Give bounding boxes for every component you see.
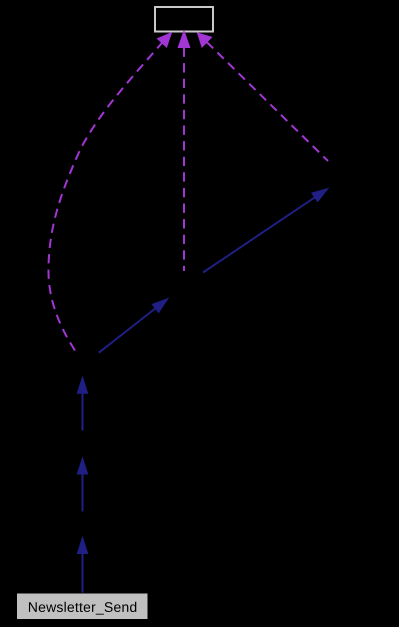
usage edge right (dashed purple diagonal, right hidden node to top box) — [198, 33, 329, 161]
usage edge middle (dashed purple vertical, middle hidden node to top box) — [178, 31, 190, 271]
inheritance arrow 2 — [77, 458, 87, 512]
inheritance arrow 3 — [77, 377, 87, 430]
node: top class box (empty, gray border) — [155, 7, 213, 32]
inheritance arrow 4 (diagonal, lower-left hidden node to middle hidden node) — [99, 299, 168, 353]
node Newsletter_Send — [18, 594, 148, 619]
inheritance arrow 5 (diagonal, middle hidden node to right hidden node) — [203, 189, 328, 273]
inheritance arrow 1 (Newsletter_Send up to hidden node) — [77, 538, 87, 593]
usage edge left (dashed purple curve, lower-left hidden node to top box) — [48, 33, 171, 351]
